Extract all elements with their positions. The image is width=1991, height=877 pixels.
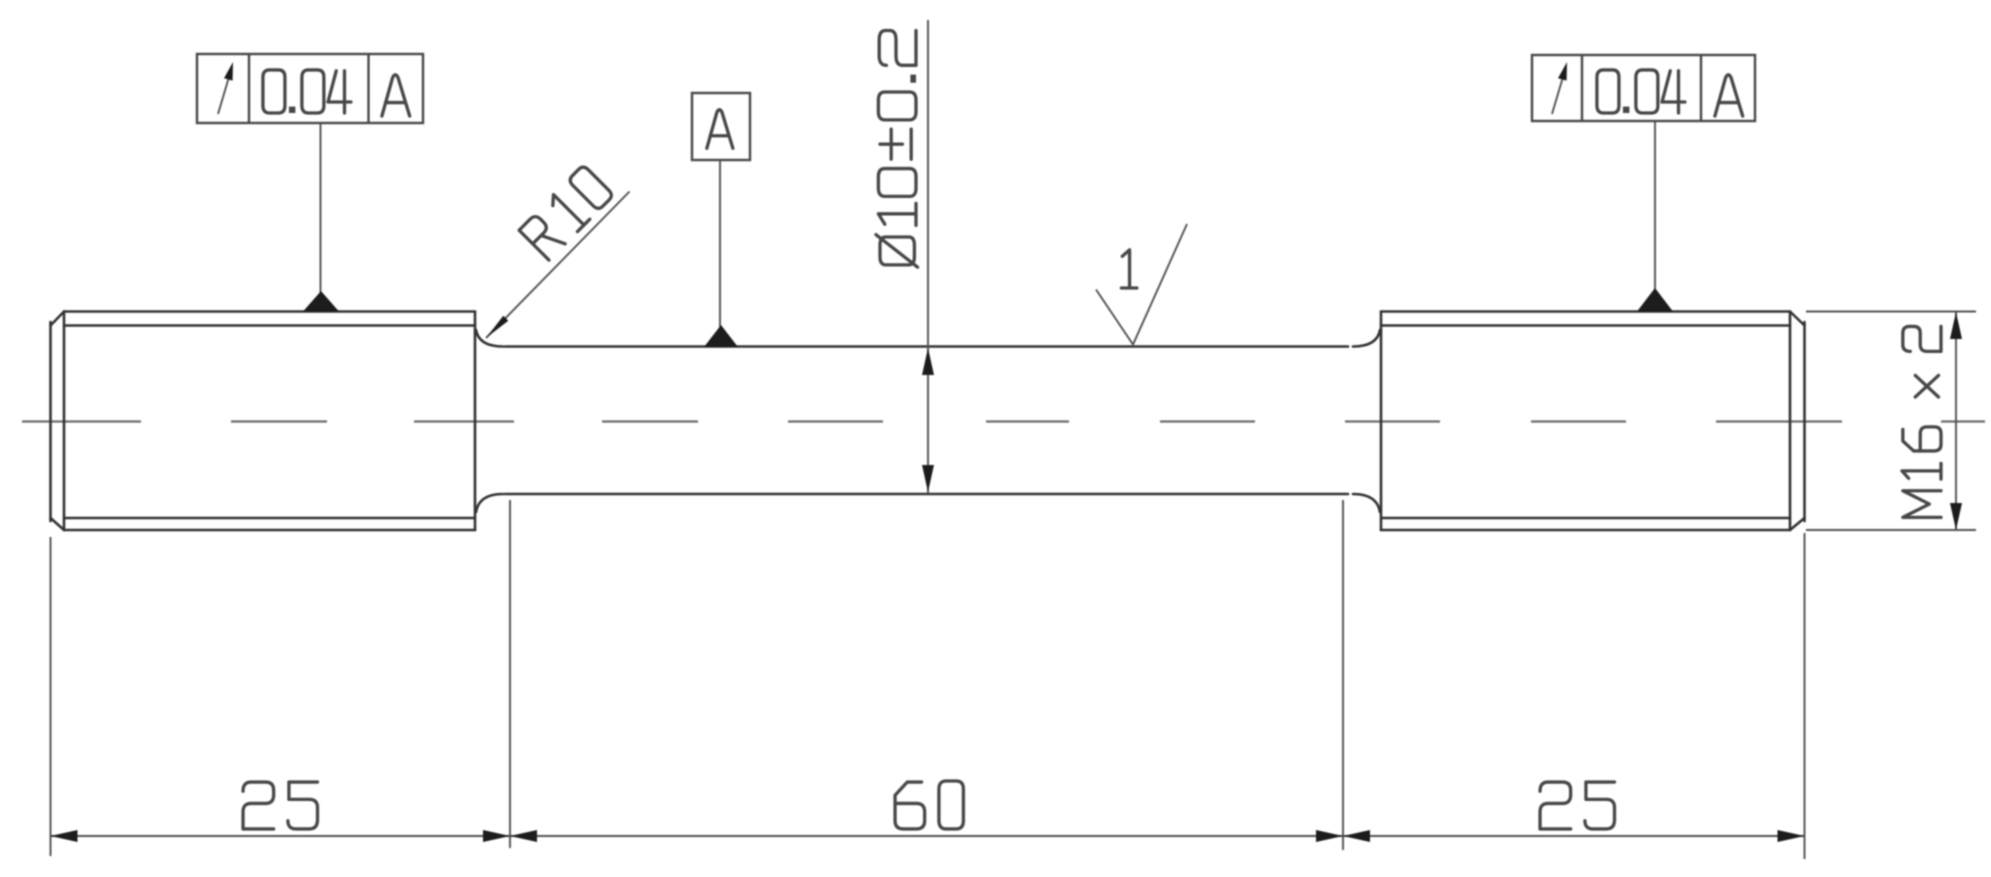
dia 10 +-0.2 text <box>876 31 918 268</box>
left grip chamfer bevel bottom <box>51 518 65 530</box>
right grip chamfer bevel top <box>1790 312 1805 326</box>
surface finish number 1 <box>1121 250 1136 288</box>
R10 leader <box>486 192 630 339</box>
bottom extension line C <box>1342 500 1344 850</box>
right grip thread crest line bottom <box>1381 517 1790 520</box>
datum A box <box>692 93 750 160</box>
M16x2 dimension line <box>1955 312 1957 530</box>
right grip bottom line <box>1381 529 1790 532</box>
left fillet bottom <box>476 494 503 512</box>
arrow 25R left <box>1343 830 1370 842</box>
right runout symbol arrowhead <box>1558 62 1567 81</box>
R10 text <box>518 165 613 260</box>
left grip chamfer edge <box>63 312 66 531</box>
M16x2 extension line bottom <box>1806 529 1976 531</box>
left FCF cell dividers <box>249 54 369 123</box>
dim text 60 <box>895 781 963 829</box>
dia 10 dimension line <box>927 20 929 493</box>
datum A leader <box>719 160 721 327</box>
M16 arrow up <box>1950 312 1962 339</box>
right grip thread crest line top <box>1381 324 1790 327</box>
left grip thread crest line top <box>64 324 475 327</box>
left FCF datum letter A <box>382 75 410 116</box>
left fillet top <box>476 330 503 347</box>
right runout symbol shaft <box>1552 79 1562 114</box>
left feature control frame <box>197 54 423 123</box>
R10 arrowhead <box>486 316 508 338</box>
right FCF triangle <box>1637 288 1673 312</box>
left grip thread crest line bottom <box>64 517 475 520</box>
M16x2 text <box>1902 326 1941 517</box>
right FCF cell dividers <box>1582 55 1701 121</box>
right FCF leader <box>1654 121 1656 290</box>
left FCF triangle <box>303 291 339 312</box>
bottom extension line B <box>509 500 511 848</box>
arrow 25L left <box>51 830 78 842</box>
left FCF leader <box>320 123 322 293</box>
centerline <box>22 420 1985 422</box>
left grip top line <box>64 310 475 313</box>
left FCF text 0.04 <box>263 70 351 113</box>
bottom extension line D <box>1804 533 1806 859</box>
gauge section top line <box>505 345 1348 348</box>
left runout symbol arrowhead <box>224 62 233 81</box>
datum A letter <box>707 110 733 149</box>
M16x2 extension line top <box>1806 311 1976 313</box>
datum A triangle <box>704 325 738 347</box>
surface finish mark <box>1096 224 1187 345</box>
arrow 25L right <box>483 830 510 842</box>
right FCF datum letter A <box>1715 75 1743 116</box>
arrow 60 left <box>510 830 537 842</box>
right grip top line <box>1381 310 1790 313</box>
right feature control frame <box>1532 55 1755 121</box>
arrow 25R right <box>1778 830 1805 842</box>
left grip chamfer bevel top <box>51 312 65 326</box>
M16 arrow down <box>1950 503 1962 530</box>
bottom dimension line <box>51 835 1805 837</box>
arrow 60 right <box>1316 830 1343 842</box>
gauge section bottom line <box>505 493 1348 496</box>
dim text 25 left <box>243 782 317 829</box>
right grip chamfer edge <box>1789 312 1792 531</box>
right FCF text 0.04 <box>1597 70 1685 113</box>
dia dim arrow up <box>922 348 934 375</box>
bottom extension line A <box>50 537 52 856</box>
left runout symbol shaft <box>218 79 228 114</box>
right grip end face <box>1803 322 1806 521</box>
right fillet top <box>1353 330 1380 347</box>
left grip bottom line <box>64 529 475 532</box>
left grip shoulder face <box>474 312 477 531</box>
left grip end face <box>49 322 52 521</box>
right grip chamfer bevel bottom <box>1790 518 1805 530</box>
dim text 25 right <box>1540 782 1614 829</box>
right fillet bottom <box>1353 494 1380 512</box>
right grip shoulder face <box>1380 312 1383 531</box>
dia dim arrow down <box>922 465 934 492</box>
